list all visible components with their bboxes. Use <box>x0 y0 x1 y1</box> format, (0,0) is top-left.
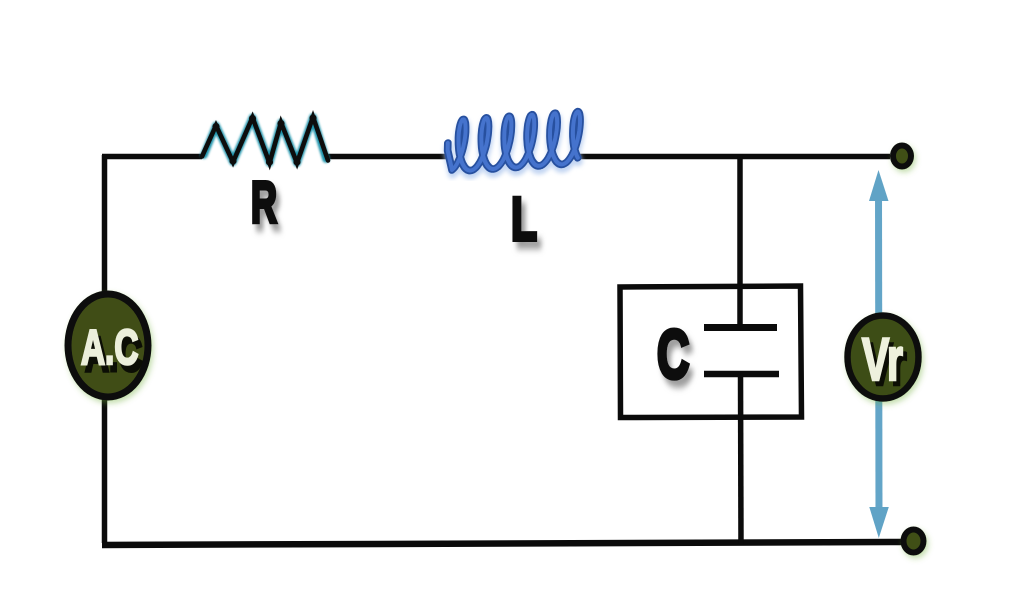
wire top segment from left corner to resistor <box>102 154 202 160</box>
wire bottom segment <box>102 542 905 545</box>
resistor R vertex dots <box>212 114 316 165</box>
inductor L coil <box>445 112 583 175</box>
capacitor box <box>620 286 802 418</box>
terminal node bottom right <box>904 530 924 553</box>
wire left vertical <box>102 155 108 543</box>
resistor R zigzag <box>202 117 328 163</box>
resistor R teal glow <box>204 117 326 163</box>
label L <box>511 186 537 254</box>
wire capacitor branch lower <box>738 374 744 544</box>
label R <box>251 171 277 236</box>
voltage arrow Vr double-headed <box>869 170 889 538</box>
svg-text:L: L <box>511 186 537 254</box>
label C <box>657 316 689 393</box>
svg-text:Vr: Vr <box>862 326 903 393</box>
capacitor plate bottom <box>704 371 779 378</box>
wire capacitor branch upper <box>737 156 743 324</box>
wire top segment from inductor to right terminal <box>571 154 890 160</box>
Vr meter <box>848 316 919 399</box>
svg-text:C: C <box>657 316 689 393</box>
svg-text:R: R <box>251 171 277 236</box>
wire top segment between resistor and inductor <box>328 154 447 160</box>
svg-text:A.C: A.C <box>81 320 138 375</box>
terminal node top right <box>893 146 911 167</box>
capacitor plate top <box>704 324 777 331</box>
AC source <box>68 294 148 397</box>
